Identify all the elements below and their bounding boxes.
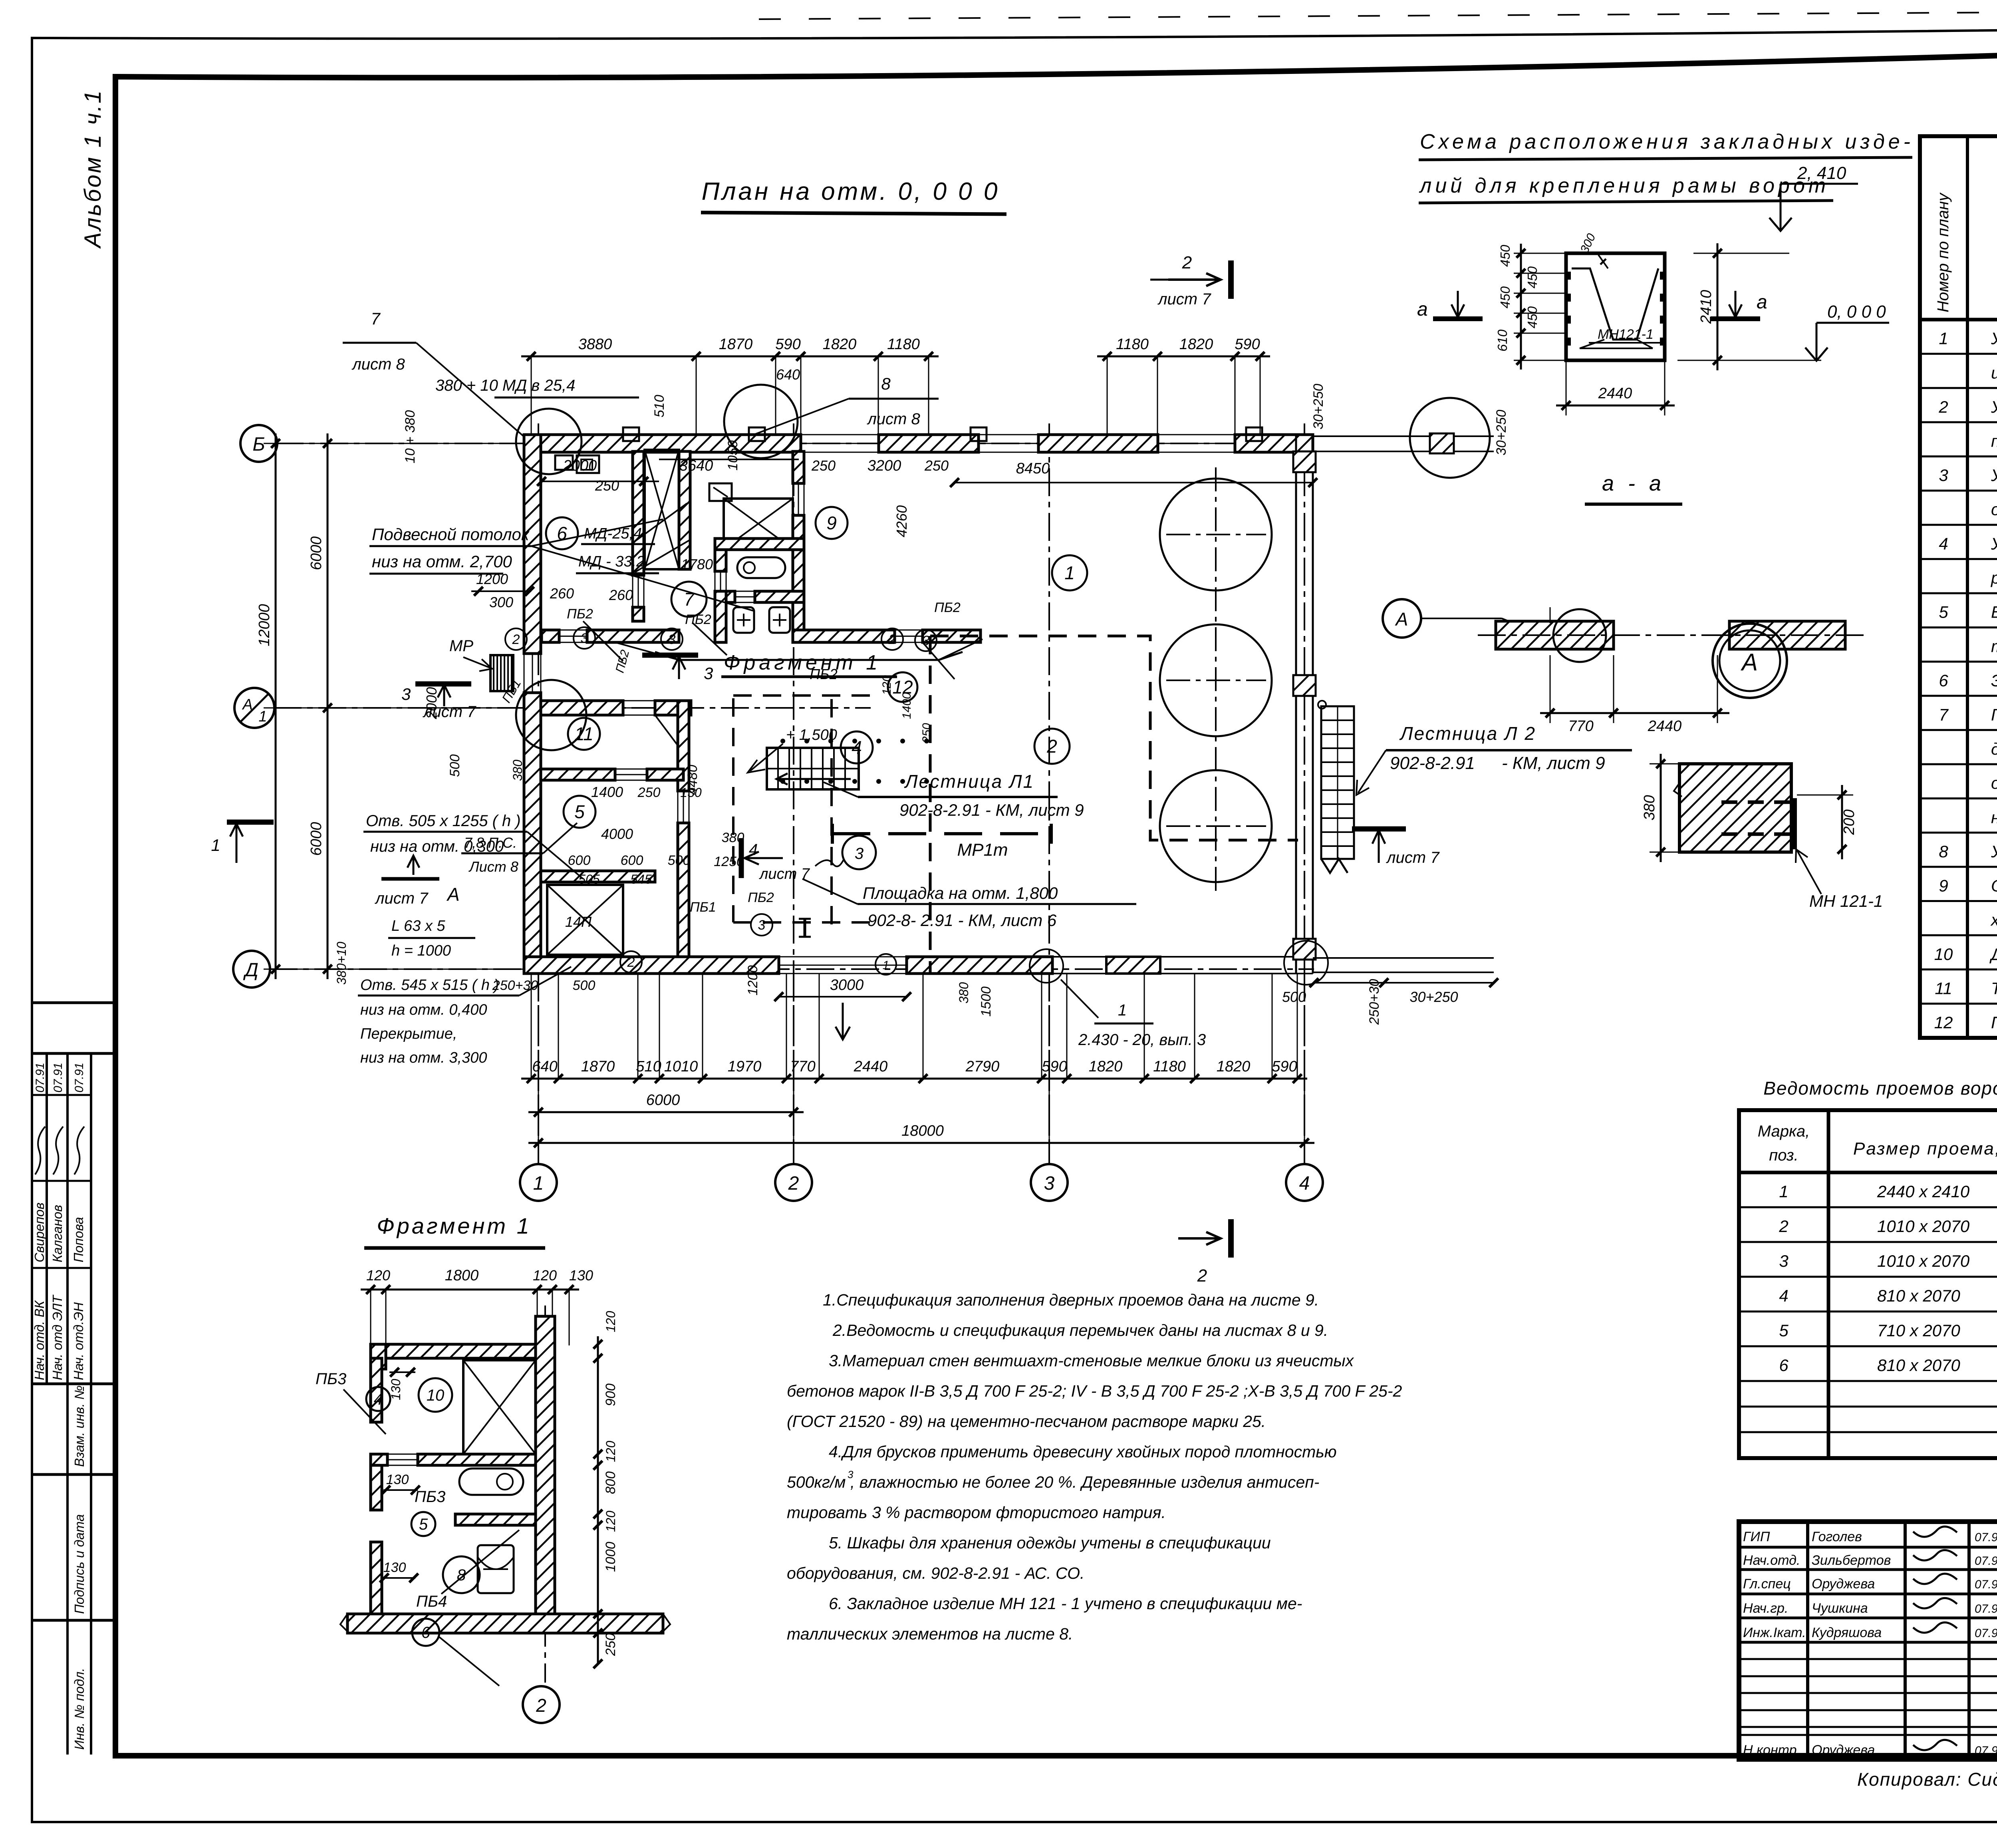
svg-text:Инж.Iкат.: Инж.Iкат. bbox=[1743, 1625, 1806, 1640]
svg-text:3: 3 bbox=[758, 918, 766, 933]
fragment right dimension chain bbox=[597, 1336, 599, 1642]
fixtures top near axis B bbox=[555, 455, 573, 470]
svg-text:лист 7: лист 7 bbox=[759, 866, 810, 882]
svg-text:2: 2 bbox=[1182, 253, 1192, 272]
svg-text:на 8 шк. + 2 шк.: на 8 шк. + 2 шк. bbox=[1991, 808, 1997, 827]
svg-text:380: 380 bbox=[510, 759, 525, 781]
svg-text:10 + 380: 10 + 380 bbox=[403, 410, 418, 463]
svg-text:тепловой пункт: тепловой пункт bbox=[1991, 637, 1997, 656]
svg-text:450: 450 bbox=[1498, 244, 1513, 267]
svg-text:120: 120 bbox=[533, 1267, 557, 1284]
svg-text:оборудования, см. 902-8-2.9: оборудования, см. 902-8-2.91 - АС. СО. bbox=[787, 1564, 1084, 1582]
svg-text:МР: МР bbox=[449, 637, 473, 655]
svg-text:1: 1 bbox=[1118, 1001, 1127, 1019]
svg-text:3: 3 bbox=[855, 845, 864, 862]
svg-text:250: 250 bbox=[603, 1633, 618, 1656]
svg-text:2440: 2440 bbox=[1598, 385, 1632, 402]
svg-text:8: 8 bbox=[1939, 842, 1948, 861]
svg-text:Схема расположения закладных и: Схема расположения закладных изде- bbox=[1420, 130, 1914, 153]
svg-text:ПБ1: ПБ1 bbox=[690, 900, 716, 915]
svg-text:таллических элементов на: таллических элементов на листе 8. bbox=[787, 1625, 1073, 1643]
svg-text:Д: Д bbox=[243, 960, 258, 981]
svg-text:2: 2 bbox=[1046, 736, 1057, 757]
svg-text:500: 500 bbox=[1282, 989, 1306, 1005]
svg-text:130: 130 bbox=[569, 1267, 593, 1284]
svg-text:590: 590 bbox=[1042, 1058, 1067, 1075]
svg-text:30+250: 30+250 bbox=[1494, 410, 1509, 455]
svg-text:2440 х 2410: 2440 х 2410 bbox=[1877, 1182, 1970, 1201]
door leaves bbox=[583, 621, 623, 661]
svg-text:МД - 33.2: МД - 33.2 bbox=[578, 553, 645, 570]
svg-text:2: 2 bbox=[888, 632, 896, 647]
svg-text:2.430 - 20, вып. 3: 2.430 - 20, вып. 3 bbox=[1078, 1031, 1206, 1049]
fragment room circles bbox=[366, 1387, 390, 1411]
svg-text:4.Для брусков применить: 4.Для брусков применить древесину хвойны… bbox=[829, 1443, 1337, 1461]
svg-text:домашней и специальной: домашней и специальной bbox=[1991, 739, 1997, 758]
svg-text:30+250: 30+250 bbox=[1409, 989, 1458, 1005]
svg-text:1000: 1000 bbox=[603, 1542, 618, 1572]
fragment mid wall bbox=[371, 1454, 387, 1465]
svg-text:лист 7: лист 7 bbox=[1157, 290, 1211, 308]
svg-text:1: 1 bbox=[1064, 562, 1075, 583]
svg-text:2000: 2000 bbox=[563, 457, 597, 474]
svg-text:5: 5 bbox=[419, 1516, 428, 1533]
svg-text:0, 0 0 0: 0, 0 0 0 bbox=[1827, 302, 1886, 322]
svg-text:1: 1 bbox=[883, 959, 889, 972]
explication table bbox=[1920, 136, 1997, 1038]
svg-text:380 + 10 МД в 25,4: 380 + 10 МД в 25,4 bbox=[435, 377, 575, 394]
svg-text:а: а bbox=[1417, 299, 1428, 320]
svg-text:2410: 2410 bbox=[1698, 290, 1715, 324]
svg-text:250: 250 bbox=[637, 785, 661, 800]
svg-text:1400: 1400 bbox=[591, 784, 623, 800]
svg-text:Участок обезвоживания: Участок обезвоживания bbox=[1991, 466, 1997, 485]
gate embed detail bbox=[1566, 253, 1665, 360]
bottom-right gate frame lines bbox=[1313, 957, 1494, 959]
svg-text:а - а: а - а bbox=[1602, 471, 1665, 495]
svg-text:и очистки: и очистки bbox=[1991, 363, 1997, 382]
svg-text:3: 3 bbox=[1939, 466, 1948, 485]
svg-text:250: 250 bbox=[595, 477, 619, 494]
svg-text:120: 120 bbox=[366, 1267, 390, 1284]
svg-text:2.Ведомость и спецификация: 2.Ведомость и спецификация перемычек дан… bbox=[832, 1321, 1328, 1339]
svg-text:(ГОСТ 21520 - 89) на цементно: (ГОСТ 21520 - 89) на цементно-песчаном р… bbox=[787, 1412, 1266, 1431]
svg-text:1010: 1010 bbox=[664, 1058, 698, 1075]
svg-text:1010 х 2070: 1010 х 2070 bbox=[1877, 1217, 1970, 1236]
svg-text:низ на отм. 2,700: низ на отм. 2,700 bbox=[372, 552, 512, 571]
svg-text:505: 505 bbox=[578, 872, 600, 886]
svg-text:Нач. отд ЭЛТ: Нач. отд ЭЛТ bbox=[50, 1294, 65, 1380]
svg-text:Подвесной потолок: Подвесной потолок bbox=[372, 525, 530, 544]
svg-text:ПБ4: ПБ4 bbox=[416, 1593, 447, 1610]
svg-text:А: А bbox=[1395, 609, 1408, 630]
svg-text:4260: 4260 bbox=[893, 505, 910, 537]
svg-text:6000: 6000 bbox=[308, 822, 325, 856]
svg-text:07.91: 07.91 bbox=[1975, 1627, 1997, 1640]
tanks (process vessels) bbox=[1160, 479, 1272, 590]
svg-text:Копировал: Сидорова: Копировал: Сидорова bbox=[1857, 1769, 1997, 1790]
svg-text:тировать 3 % раствором фт: тировать 3 % раствором фтористого натрия… bbox=[787, 1503, 1166, 1522]
axis dash-dot lines bbox=[538, 423, 539, 1164]
svg-text:6000: 6000 bbox=[646, 1092, 680, 1109]
fragment room10 shaft bbox=[463, 1360, 536, 1454]
svg-text:6: 6 bbox=[1939, 671, 1948, 690]
svg-text:1: 1 bbox=[258, 708, 267, 725]
svg-text:260: 260 bbox=[550, 585, 574, 602]
svg-text:5: 5 bbox=[574, 801, 585, 822]
svg-text:810 х 2070: 810 х 2070 bbox=[1877, 1286, 1960, 1305]
svg-text:1820: 1820 bbox=[823, 336, 857, 353]
svg-text:510: 510 bbox=[636, 1058, 661, 1075]
svg-text:380+10: 380+10 bbox=[334, 942, 349, 985]
svg-text:1820: 1820 bbox=[1179, 336, 1213, 353]
svg-text:250: 250 bbox=[924, 457, 949, 474]
svg-text:590: 590 bbox=[775, 336, 800, 353]
svg-text:а: а bbox=[1757, 292, 1767, 313]
svg-text:4: 4 bbox=[749, 841, 758, 858]
svg-text:МН 121-1: МН 121-1 bbox=[1809, 892, 1883, 910]
svg-text:1: 1 bbox=[211, 836, 220, 854]
svg-text:07.91: 07.91 bbox=[1975, 1578, 1997, 1591]
svg-text:11: 11 bbox=[574, 723, 594, 744]
svg-text:План на отм. 0, 0 0 0: План на отм. 0, 0 0 0 bbox=[702, 178, 1000, 205]
svg-text:4: 4 bbox=[1939, 534, 1948, 553]
svg-text:120: 120 bbox=[603, 1441, 618, 1462]
fragment left wall mid bbox=[371, 1465, 382, 1510]
svg-text:Операторская и: Операторская и bbox=[1991, 876, 1997, 895]
svg-text:производственных вод: производственных вод bbox=[1991, 432, 1997, 451]
svg-text:14П: 14П bbox=[565, 914, 592, 930]
svg-text:8: 8 bbox=[457, 1566, 466, 1584]
svg-text:лий для крепления рамы ворот: лий для крепления рамы ворот bbox=[1419, 174, 1829, 197]
svg-text:1010 х 2070: 1010 х 2070 bbox=[1877, 1252, 1970, 1270]
svg-text:600: 600 bbox=[621, 853, 643, 868]
svg-text:545: 545 bbox=[630, 872, 652, 886]
left margin stamp block bbox=[32, 1001, 115, 1004]
svg-text:2: 2 bbox=[788, 1173, 799, 1194]
svg-text:18000: 18000 bbox=[901, 1123, 944, 1139]
svg-text:4480: 4480 bbox=[685, 765, 700, 795]
staircase L1 bbox=[767, 748, 859, 789]
svg-text:250: 250 bbox=[920, 723, 933, 743]
fragment top wall bbox=[371, 1344, 536, 1358]
svg-text:1180: 1180 bbox=[1153, 1058, 1186, 1075]
room number circles bbox=[1052, 555, 1087, 590]
svg-text:лист 7: лист 7 bbox=[375, 890, 429, 907]
svg-text:Номер по плану: Номер по плану bbox=[1934, 192, 1952, 312]
svg-text:500: 500 bbox=[447, 754, 463, 777]
section 1 flag left bbox=[227, 820, 274, 825]
svg-text:лист 7: лист 7 bbox=[423, 703, 476, 721]
svg-text:1800: 1800 bbox=[445, 1267, 479, 1284]
MP1t line bbox=[832, 832, 1051, 835]
svg-text:Размер проема, мм: Размер проема, мм bbox=[1853, 1139, 1997, 1158]
svg-text:Взам. инв. №: Взам. инв. № bbox=[72, 1385, 87, 1467]
svg-text:6000: 6000 bbox=[308, 537, 325, 570]
svg-text:3: 3 bbox=[1044, 1173, 1055, 1194]
svg-text:3: 3 bbox=[848, 1468, 854, 1480]
platform dots bbox=[780, 739, 785, 743]
bottom-right pier bbox=[1106, 957, 1160, 974]
svg-text:2: 2 bbox=[627, 955, 635, 970]
svg-text:1500: 1500 bbox=[979, 986, 994, 1017]
svg-text:640: 640 bbox=[776, 366, 800, 383]
svg-text:450: 450 bbox=[1525, 306, 1540, 328]
svg-text:Венткамера и: Венткамера и bbox=[1991, 603, 1997, 622]
top dimension chain bbox=[521, 356, 939, 358]
svg-text:07.91: 07.91 bbox=[34, 1063, 47, 1093]
svg-text:Лестница Л 2: Лестница Л 2 bbox=[1399, 723, 1536, 744]
MP ventilation grille bbox=[490, 655, 513, 691]
svg-text:1820: 1820 bbox=[1217, 1058, 1251, 1075]
svg-text:1: 1 bbox=[1779, 1182, 1788, 1201]
svg-text:120: 120 bbox=[603, 1311, 618, 1332]
svg-text:Зильбертов: Зильбертов bbox=[1812, 1553, 1891, 1568]
svg-text:Попова: Попова bbox=[71, 1217, 86, 1262]
svg-text:2: 2 bbox=[1938, 397, 1948, 416]
svg-text:Нач.отд.: Нач.отд. bbox=[1743, 1553, 1800, 1568]
fragment bottom wall bbox=[347, 1614, 663, 1633]
platform dashed around stair bbox=[732, 698, 734, 922]
svg-text:10: 10 bbox=[427, 1387, 445, 1404]
svg-text:Нач. отд. ВК: Нач. отд. ВК bbox=[32, 1300, 47, 1380]
svg-text:2: 2 bbox=[512, 632, 520, 647]
svg-text:3.Материал стен вентшахт-сте: 3.Материал стен вентшахт-стеновые мелкие… bbox=[829, 1351, 1354, 1370]
svg-text:500: 500 bbox=[668, 853, 691, 868]
svg-text:МР1т: МР1т bbox=[957, 840, 1008, 860]
svg-text:300: 300 bbox=[489, 594, 513, 610]
svg-text:А: А bbox=[242, 696, 252, 713]
svg-text:Н.контр.: Н.контр. bbox=[1743, 1743, 1800, 1758]
exterior walls bbox=[524, 435, 801, 452]
svg-text:6: 6 bbox=[1779, 1356, 1789, 1375]
svg-text:4: 4 bbox=[1299, 1173, 1310, 1194]
svg-text:5. Шкафы для хранения: 5. Шкафы для хранения одежды учтены в сп… bbox=[829, 1534, 1271, 1552]
node A marker bbox=[1713, 624, 1787, 698]
svg-text:А: А bbox=[1741, 649, 1758, 676]
svg-text:Гоголев: Гоголев bbox=[1812, 1529, 1862, 1544]
svg-text:900: 900 bbox=[603, 1383, 618, 1406]
svg-text:9: 9 bbox=[1939, 876, 1948, 895]
svg-text:1050: 1050 bbox=[725, 440, 740, 471]
svg-text:ГИП: ГИП bbox=[1743, 1529, 1770, 1544]
svg-text:450: 450 bbox=[1525, 266, 1540, 288]
uzel A detail bbox=[1679, 764, 1791, 852]
svg-text:Альбом 1 ч.1: Альбом 1 ч.1 bbox=[80, 89, 106, 249]
svg-text:Отв. 545 х 515 ( h ): Отв. 545 х 515 ( h ) bbox=[360, 977, 499, 994]
svg-text:Участок очистки: Участок очистки bbox=[1991, 397, 1997, 416]
svg-text:12000: 12000 bbox=[256, 604, 273, 646]
axis circles bbox=[240, 425, 277, 462]
svg-text:Б: Б bbox=[252, 434, 265, 455]
svg-text:1870: 1870 bbox=[719, 336, 753, 353]
svg-text:600: 600 bbox=[568, 853, 591, 868]
interior partitions bbox=[633, 451, 644, 575]
svg-text:Марка,: Марка, bbox=[1758, 1123, 1810, 1140]
corner blocks at top wall bbox=[623, 427, 639, 441]
fragment callout bbox=[655, 652, 963, 660]
svg-text:4000: 4000 bbox=[601, 826, 633, 842]
svg-text:3: 3 bbox=[1779, 1252, 1788, 1270]
svg-text:2790: 2790 bbox=[965, 1058, 1000, 1075]
svg-text:380: 380 bbox=[1641, 795, 1658, 820]
svg-text:низ на отм. 0,400: низ на отм. 0,400 bbox=[360, 1001, 487, 1018]
svg-text:Фрагмент 1: Фрагмент 1 bbox=[724, 651, 881, 674]
svg-text:химлаборатория: химлаборатория bbox=[1990, 910, 1997, 929]
svg-text:Тамбур: Тамбур bbox=[1991, 979, 1997, 998]
svg-text:9: 9 bbox=[826, 513, 837, 533]
svg-text:2440: 2440 bbox=[854, 1058, 888, 1075]
door mark circles bottom bbox=[875, 954, 896, 975]
svg-text:Нач.гр.: Нач.гр. bbox=[1743, 1601, 1788, 1616]
svg-text:4: 4 bbox=[374, 1391, 383, 1408]
fragment fixtures bbox=[459, 1468, 523, 1495]
fragment main vertical wall bbox=[536, 1316, 555, 1622]
svg-text:1: 1 bbox=[1939, 329, 1948, 348]
svg-text:Свирепов: Свирепов bbox=[32, 1202, 47, 1262]
svg-text:Отв. 505 х 1255 ( h ): Отв. 505 х 1255 ( h ) bbox=[366, 812, 521, 830]
svg-text:6. Закладное изделие МН: 6. Закладное изделие МН 121 - 1 учтено в… bbox=[829, 1594, 1302, 1613]
svg-text:ПБ2: ПБ2 bbox=[934, 600, 961, 615]
svg-text:поз.: поз. bbox=[1769, 1147, 1798, 1164]
svg-text:8450: 8450 bbox=[1016, 460, 1050, 477]
svg-text:низ на отм. 3,300: низ на отм. 3,300 bbox=[360, 1049, 487, 1066]
svg-text:- КМ, лист 9: - КМ, лист 9 bbox=[1502, 753, 1605, 773]
svg-text:L 63 х 5: L 63 х 5 bbox=[391, 918, 445, 934]
svg-text:260: 260 bbox=[609, 587, 633, 603]
stair arrow bbox=[1337, 847, 1338, 859]
svg-text:осадков: осадков bbox=[1991, 500, 1997, 519]
svg-text:1180: 1180 bbox=[1116, 336, 1149, 353]
svg-text:растворов: растворов bbox=[1990, 568, 1997, 587]
svg-text:Гардероб уличной,: Гардероб уличной, bbox=[1991, 705, 1997, 724]
svg-text:810 х 2070: 810 х 2070 bbox=[1877, 1356, 1960, 1375]
svg-text:510: 510 bbox=[652, 395, 667, 417]
svg-text:1.Спецификация заполнения: 1.Спецификация заполнения дверных проемо… bbox=[823, 1291, 1319, 1309]
fragment axis circle 2 bbox=[523, 1686, 560, 1723]
svg-text:640: 640 bbox=[532, 1058, 557, 1075]
svg-text:ПБ3: ПБ3 bbox=[316, 1370, 346, 1388]
svg-text:1180: 1180 bbox=[887, 336, 920, 353]
svg-text:3: 3 bbox=[668, 632, 676, 647]
I-beam column symbol bbox=[804, 919, 806, 937]
svg-text:Электрощитовая: Электрощитовая bbox=[1991, 671, 1997, 690]
svg-text:120: 120 bbox=[603, 1510, 618, 1532]
svg-text:3: 3 bbox=[922, 633, 930, 648]
svg-text:3200: 3200 bbox=[867, 457, 901, 474]
svg-text:Лестница Л1: Лестница Л1 bbox=[904, 771, 1034, 792]
svg-text:ПБ3: ПБ3 bbox=[415, 1488, 445, 1506]
svg-text:12: 12 bbox=[1934, 1013, 1953, 1032]
svg-text:Нач. отд.ЭН: Нач. отд.ЭН bbox=[71, 1302, 86, 1380]
svg-text:Ведомость проемов ворот и двер: Ведомость проемов ворот и дверей bbox=[1763, 1078, 1997, 1099]
svg-text:710 х 2070: 710 х 2070 bbox=[1877, 1321, 1960, 1340]
room 9 bottom wall bbox=[793, 630, 895, 642]
svg-text:800: 800 bbox=[603, 1471, 618, 1494]
svg-text:3880: 3880 bbox=[578, 336, 612, 353]
top-right gate frame lines bbox=[1313, 435, 1494, 437]
svg-text:6: 6 bbox=[421, 1624, 431, 1641]
svg-text:1200: 1200 bbox=[745, 965, 760, 996]
svg-text:07.91: 07.91 bbox=[1975, 1554, 1997, 1568]
svg-text:8: 8 bbox=[881, 374, 891, 393]
svg-text:902-8-2.91 - КМ, лист 9: 902-8-2.91 - КМ, лист 9 bbox=[899, 801, 1084, 819]
svg-text:3000: 3000 bbox=[830, 977, 864, 994]
svg-text:лист 8: лист 8 bbox=[351, 356, 405, 373]
svg-text:1870: 1870 bbox=[581, 1058, 615, 1075]
svg-text:3: 3 bbox=[704, 664, 713, 683]
svg-text:одежды для гр. 3 б: одежды для гр. 3 б bbox=[1991, 774, 1997, 793]
svg-text:Участок регенерации: Участок регенерации bbox=[1991, 329, 1997, 348]
svg-text:12: 12 bbox=[892, 677, 913, 697]
svg-text:07.91: 07.91 bbox=[52, 1063, 65, 1093]
right wall bbox=[1295, 435, 1297, 974]
fragment axis line bbox=[544, 1306, 546, 1683]
svg-text:Подпись и дата: Подпись и дата bbox=[72, 1514, 87, 1614]
svg-text:590: 590 bbox=[1272, 1058, 1297, 1075]
svg-text:450: 450 bbox=[1498, 286, 1513, 308]
svg-text:Площадка на отм. 1,800: Площадка на отм. 1,800 bbox=[863, 884, 1058, 902]
svg-text:Кудряшова: Кудряшова bbox=[1812, 1625, 1882, 1640]
svg-text:07.91: 07.91 bbox=[73, 1063, 86, 1093]
svg-text:+ 1,500: + 1,500 bbox=[786, 727, 837, 743]
svg-text:1: 1 bbox=[533, 1173, 544, 1194]
svg-text:Участок приготовления: Участок приготовления bbox=[1991, 534, 1997, 553]
svg-text:770: 770 bbox=[790, 1058, 815, 1075]
svg-text:1970: 1970 bbox=[728, 1058, 762, 1075]
svg-text:902-8- 2.91 - КМ, лист 6: 902-8- 2.91 - КМ, лист 6 bbox=[867, 911, 1057, 930]
small 3/2 circles bbox=[574, 627, 595, 649]
svg-text:Проход: Проход bbox=[1991, 1013, 1997, 1032]
svg-text:Уборная: Уборная bbox=[1991, 842, 1997, 861]
svg-text:2440: 2440 bbox=[1648, 718, 1682, 735]
svg-text:МД-25,4: МД-25,4 bbox=[584, 525, 642, 542]
svg-text:МН121-1: МН121-1 bbox=[1598, 327, 1654, 342]
svg-text:200: 200 bbox=[1841, 809, 1858, 835]
svg-text:Калганов: Калганов bbox=[50, 1205, 65, 1262]
svg-text:7,8 П.С.: 7,8 П.С. bbox=[464, 835, 517, 851]
bottom dimension chains bbox=[521, 1078, 1307, 1080]
svg-text:4: 4 bbox=[1779, 1286, 1788, 1305]
svg-text:Инв. № подл.: Инв. № подл. bbox=[72, 1668, 87, 1750]
svg-text:ПБ2: ПБ2 bbox=[748, 890, 774, 905]
svg-text:500: 500 bbox=[573, 978, 596, 993]
svg-text:Лист 8: Лист 8 bbox=[468, 858, 518, 875]
svg-text:лист 8: лист 8 bbox=[867, 410, 920, 428]
svg-text:590: 590 bbox=[1235, 336, 1260, 353]
svg-text:2, 410: 2, 410 bbox=[1797, 163, 1846, 183]
svg-text:ПБ2: ПБ2 bbox=[567, 606, 593, 622]
svg-text:770: 770 bbox=[1568, 718, 1593, 735]
svg-text:7: 7 bbox=[371, 309, 381, 328]
fragment wc partition bbox=[455, 1514, 536, 1525]
svg-text:5: 5 bbox=[1939, 603, 1948, 622]
svg-text:130: 130 bbox=[383, 1560, 406, 1575]
svg-text:1820: 1820 bbox=[1089, 1058, 1123, 1075]
svg-text:07.91: 07.91 bbox=[1975, 1602, 1997, 1616]
svg-text:А: А bbox=[446, 884, 460, 905]
svg-text:250: 250 bbox=[811, 457, 836, 474]
svg-text:902-8-2.91: 902-8-2.91 bbox=[1390, 753, 1475, 773]
svg-text:3: 3 bbox=[401, 685, 411, 703]
title block bbox=[1739, 1522, 1997, 1759]
svg-text:2: 2 bbox=[1779, 1217, 1788, 1236]
svg-text:2: 2 bbox=[1197, 1266, 1207, 1286]
svg-text:Оруджева: Оруджева bbox=[1812, 1576, 1875, 1592]
svg-text:Гл.спец: Гл.спец bbox=[1743, 1576, 1791, 1592]
svg-text:610: 610 bbox=[1495, 329, 1510, 352]
svg-text:Фрагмент 1: Фрагмент 1 bbox=[377, 1213, 532, 1238]
